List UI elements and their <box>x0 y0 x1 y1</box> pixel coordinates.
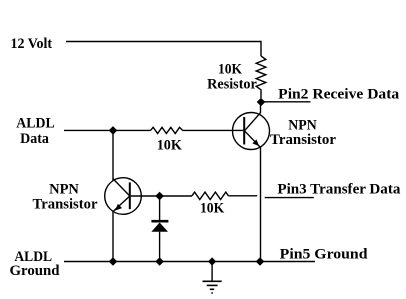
transistor Q2 (left NPN) <box>105 178 142 215</box>
node junction dot C (Q2 base / diode D1 / R3) <box>155 192 164 201</box>
svg-text:10K: 10K <box>157 138 183 154</box>
svg-text:Transistor: Transistor <box>33 197 98 213</box>
wire Q2 emitter down to ground rail <box>112 212 114 262</box>
node junction dot G (Q1 emitter / ground) <box>256 257 265 266</box>
wire Pin2 stub <box>261 101 311 103</box>
svg-text:12 Volt: 12 Volt <box>11 36 53 52</box>
svg-text:10K: 10K <box>200 201 225 217</box>
transistor Q1 (right NPN) <box>233 113 270 150</box>
diode D1 (dot C to ground, cathode up) <box>151 196 168 262</box>
svg-text:Pin3 Transfer Data: Pin3 Transfer Data <box>277 181 400 197</box>
resistor R2 10K (horizontal zigzag) <box>151 127 183 133</box>
node junction dot D (Q2 emitter / ground) <box>109 257 118 266</box>
node junction dot A (R1 / Pin2 / Q1 collector) <box>257 98 266 107</box>
wire R3 to emitter line of Q1 <box>228 195 257 197</box>
svg-text:NPN: NPN <box>49 182 79 198</box>
svg-text:Data: Data <box>20 131 49 147</box>
svg-text:Pin5 Ground: Pin5 Ground <box>280 247 368 263</box>
node junction dot F (ground symbol tap) <box>208 257 216 265</box>
wire 12V rail: horizontal then down to resistor R1 <box>66 42 261 57</box>
resistor R1 10K (vertical zigzag) <box>256 56 266 98</box>
wire dot A to Q1 collector <box>260 102 262 113</box>
node junction dot B (ALDL Data / Q2 collector) <box>109 126 118 135</box>
svg-text:10K: 10K <box>218 62 242 78</box>
svg-text:Ground: Ground <box>10 263 61 279</box>
node junction dot E (diode D1 / ground) <box>155 257 164 266</box>
wire Pin3 stub <box>265 197 314 199</box>
svg-text:ALDL: ALDL <box>16 116 54 132</box>
svg-text:Transistor: Transistor <box>270 132 336 148</box>
wire dot B down to Q2 collector <box>112 130 114 180</box>
wire ALDL Data to resistor R2 <box>64 129 151 131</box>
svg-text:Pin2 Receive Data: Pin2 Receive Data <box>278 86 400 102</box>
resistor R3 10K (horizontal zigzag) <box>192 192 228 199</box>
wire ground rail <box>64 261 315 263</box>
ground symbol <box>203 262 222 294</box>
wire Q2 base to dot C <box>131 195 192 197</box>
wire R2 to Q1 base <box>183 129 244 131</box>
wire Q1 emitter down to ground rail <box>260 148 262 262</box>
svg-text:Resistor: Resistor <box>207 77 257 93</box>
